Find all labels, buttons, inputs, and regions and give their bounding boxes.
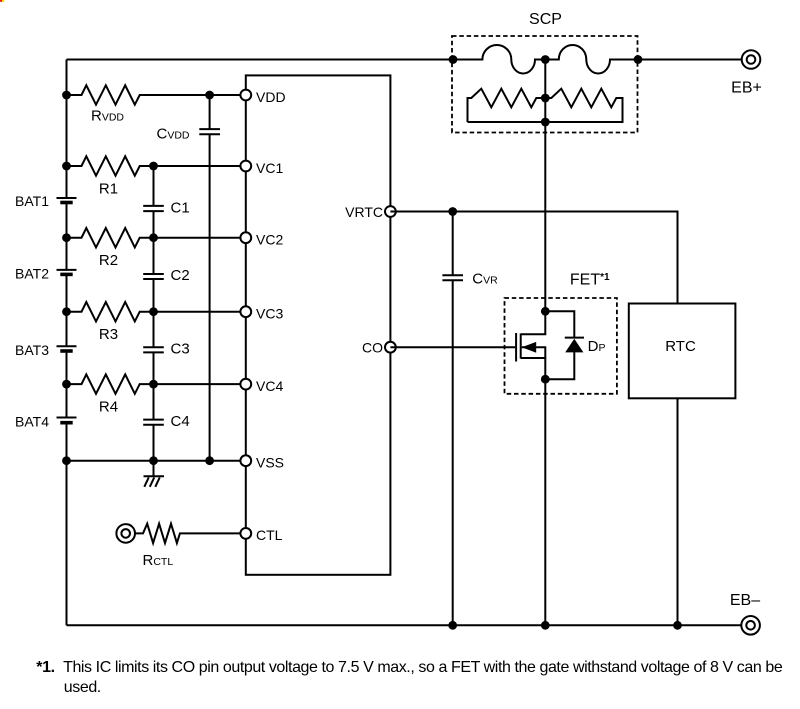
- battery BAT3: [57, 345, 77, 347]
- junction node CVDD-bottom: [205, 456, 214, 465]
- capacitor C4: [143, 384, 164, 461]
- resistor R3: [67, 302, 247, 321]
- SCP dashed box: [452, 36, 638, 133]
- svg-text:R1: R1: [99, 181, 118, 198]
- svg-text:VC1: VC1: [256, 160, 283, 176]
- svg-text:CO: CO: [362, 340, 383, 356]
- pin VSS: [240, 455, 251, 466]
- svg-text:CVDD: CVDD: [157, 126, 190, 143]
- wire: SCP output down to FET drain: [544, 122, 546, 311]
- terminal EB-: [741, 616, 760, 635]
- IC box U1: [246, 75, 391, 574]
- pin VC4: [240, 379, 251, 390]
- wire: VSS row: [67, 460, 247, 462]
- resistor R2: [67, 228, 247, 247]
- svg-text:VDD: VDD: [256, 89, 286, 105]
- svg-text:BAT1: BAT1: [15, 193, 49, 209]
- svg-text:RTC: RTC: [665, 338, 696, 355]
- pin VRTC: [385, 206, 396, 217]
- junction node VC3-left: [62, 307, 71, 316]
- junction node VSS-ground: [149, 456, 158, 465]
- svg-text:EB+: EB+: [731, 80, 762, 97]
- wire: RTC to bottom bus: [677, 398, 679, 625]
- battery BAT4: [57, 417, 77, 419]
- junction node SCP-mid: [541, 55, 550, 64]
- svg-text:R3: R3: [99, 326, 118, 343]
- junction node VC2-left: [62, 233, 71, 242]
- junction node SCP-out: [634, 55, 643, 64]
- svg-text:RVDD: RVDD: [91, 108, 124, 125]
- junction node RTC-bottom: [673, 621, 682, 630]
- SCP heater resistor: [468, 89, 623, 122]
- capacitor CVR: [442, 212, 463, 626]
- svg-text:C1: C1: [171, 199, 190, 216]
- resistor R4: [67, 374, 247, 393]
- wire: VRTC to RTC: [390, 212, 677, 304]
- capacitor C2: [143, 238, 164, 312]
- junction node CVDD-top: [205, 91, 214, 100]
- junction node FET-bottom: [541, 621, 550, 630]
- svg-text:VC2: VC2: [256, 232, 283, 248]
- svg-text:SCP: SCP: [529, 11, 562, 28]
- svg-text:VC4: VC4: [256, 378, 283, 394]
- junction node heater-bottom: [541, 118, 550, 127]
- svg-text:VSS: VSS: [256, 455, 284, 471]
- svg-text:VC3: VC3: [256, 306, 283, 322]
- junction node VC4-left: [62, 380, 71, 389]
- terminal EB+: [742, 50, 761, 69]
- svg-text:CTL: CTL: [256, 527, 283, 543]
- wire: top bus to EB+: [67, 59, 742, 61]
- svg-text:C2: C2: [171, 267, 190, 284]
- resistor RVDD: [67, 85, 241, 104]
- svg-text:FET*1: FET*1: [570, 272, 610, 289]
- svg-text:R4: R4: [99, 399, 118, 416]
- junction node VC4-RC: [149, 380, 158, 389]
- svg-text:DP: DP: [588, 338, 606, 355]
- resistor R1: [67, 156, 247, 175]
- junction node VC2-RC: [149, 233, 158, 242]
- wire: bottom bus to EB-: [67, 624, 742, 626]
- pin CO: [385, 342, 396, 353]
- pin VC1: [240, 161, 251, 172]
- svg-text:RCTL: RCTL: [143, 552, 174, 569]
- svg-text:C4: C4: [171, 413, 190, 430]
- fuse F1 (SCP fuse elements): [453, 45, 638, 74]
- wire: left battery bus: [66, 60, 68, 626]
- svg-text:R2: R2: [99, 252, 118, 269]
- terminal RCTL input: [116, 524, 135, 543]
- junction node SCP-in: [449, 55, 458, 64]
- junction node VRTC-CVR: [448, 207, 457, 216]
- capacitor CVDD: [199, 95, 220, 461]
- resistor RCTL: [135, 524, 246, 543]
- junction node VSS-left: [62, 456, 71, 465]
- ground: [144, 461, 165, 487]
- svg-text:*1.This IC limits its CO pin o: *1.This IC limits its CO pin output volt…: [36, 659, 783, 676]
- svg-text:used.: used.: [64, 679, 101, 696]
- capacitor C1: [143, 166, 164, 238]
- pin CTL: [240, 528, 251, 539]
- wire: FET source to bottom bus: [544, 379, 546, 625]
- pin VC3: [240, 306, 251, 317]
- junction node heater-tap: [541, 94, 550, 103]
- junction node FET-source: [541, 375, 550, 384]
- svg-text:EB–: EB–: [730, 592, 760, 609]
- junction node VC1-RC: [149, 162, 158, 171]
- svg-text:BAT2: BAT2: [15, 265, 49, 281]
- junction node VC1-left: [62, 162, 71, 171]
- junction node VC3-RC: [149, 307, 158, 316]
- pin VC2: [240, 232, 251, 243]
- battery BAT1: [57, 197, 77, 199]
- wire: CO to FET gate: [390, 346, 515, 348]
- svg-text:BAT3: BAT3: [15, 342, 49, 358]
- junction node CVR-bottom: [448, 621, 457, 630]
- svg-text:C3: C3: [171, 341, 190, 358]
- junction node FET-drain: [541, 307, 550, 316]
- capacitor C3: [143, 312, 164, 384]
- svg-text:BAT4: BAT4: [15, 413, 49, 429]
- junction node RVDD-left: [62, 91, 71, 100]
- FET dashed box: [505, 298, 617, 394]
- corner artifact mark: [0, 0, 2, 2]
- transistor Q1 (FET): [515, 333, 517, 362]
- diode DP (body diode): [545, 311, 584, 379]
- pin VDD: [240, 90, 251, 101]
- battery BAT2: [57, 269, 77, 271]
- svg-text:VRTC: VRTC: [345, 204, 383, 220]
- RTC box: [629, 304, 736, 399]
- svg-text:CVR: CVR: [472, 271, 498, 288]
- wire: fuse center to heater center: [544, 60, 546, 123]
